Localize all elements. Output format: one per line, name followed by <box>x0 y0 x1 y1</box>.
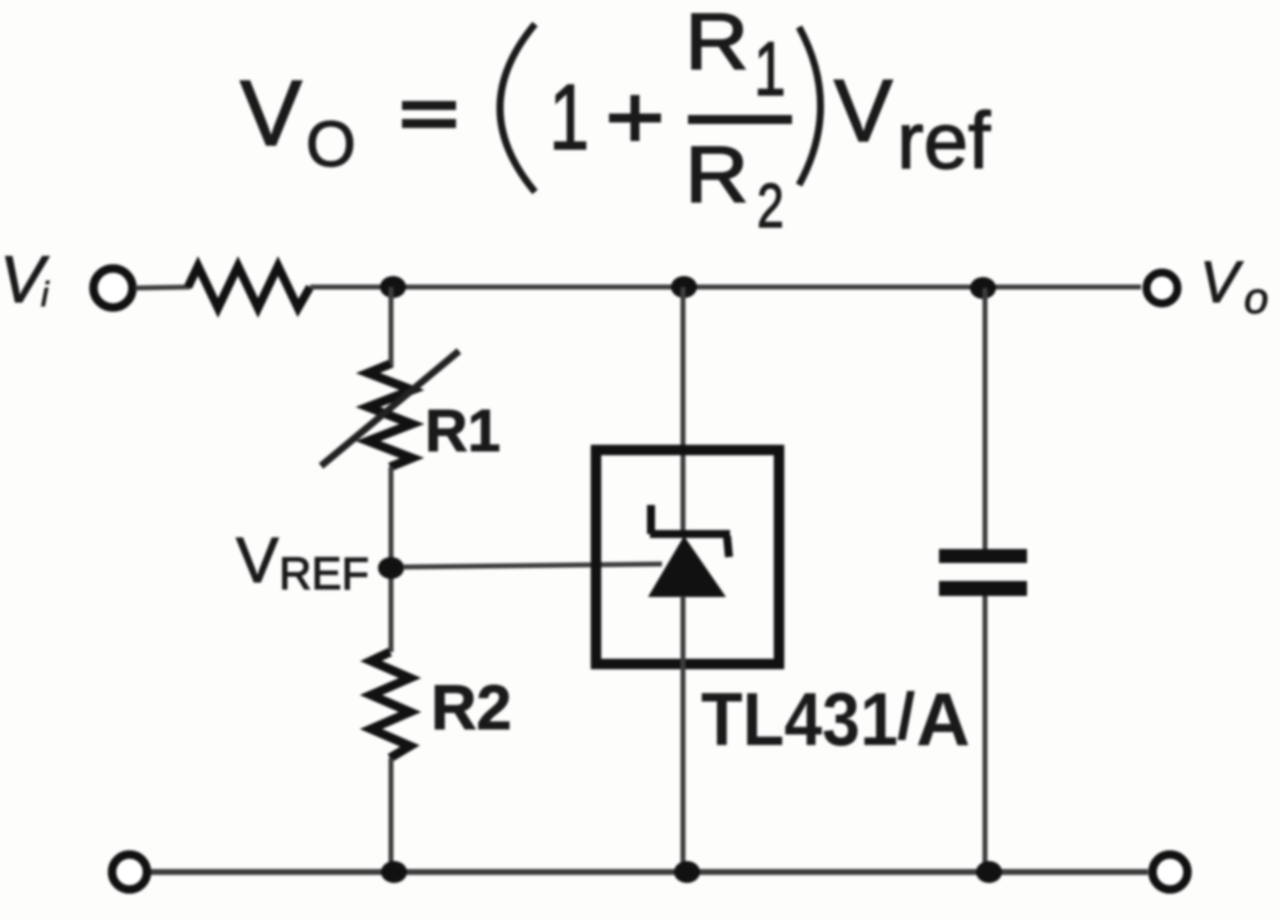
resistor R1 (variable) <box>368 364 412 467</box>
svg-text:V: V <box>240 61 302 165</box>
terminal Vi <box>94 269 133 308</box>
svg-text:2: 2 <box>757 171 784 240</box>
terminal Vo <box>1147 273 1178 304</box>
plus sign <box>609 114 661 123</box>
svg-text:R: R <box>685 0 749 86</box>
open parenthesis <box>500 24 535 192</box>
svg-text:o: o <box>1244 274 1268 323</box>
capacitor C1 top plate <box>939 549 1027 563</box>
wire R1 to Vref node <box>389 467 394 652</box>
wire bottom rail <box>151 869 1148 875</box>
svg-text:1: 1 <box>754 27 786 112</box>
svg-text:R: R <box>685 130 749 219</box>
svg-text:O: O <box>306 108 356 180</box>
terminal bottom right <box>1153 855 1188 890</box>
node F (bottom of capacitor) <box>976 861 1002 883</box>
wire Vi to resistor <box>135 287 190 288</box>
wire top rail <box>310 285 1141 290</box>
svg-text:REF: REF <box>279 548 369 599</box>
terminal bottom left <box>112 855 147 890</box>
svg-text:A: A <box>916 677 970 761</box>
resistor (input series) <box>188 266 310 308</box>
TL431 cathode right tick <box>727 536 729 557</box>
svg-text:V: V <box>834 61 893 160</box>
wire R2 to bottom rail <box>389 758 394 872</box>
node C (top of capacitor branch) <box>970 277 996 299</box>
close parenthesis <box>799 27 821 185</box>
wire capacitor to bottom rail <box>983 596 988 872</box>
svg-text:1: 1 <box>549 65 589 169</box>
TL431 cathode left tick <box>647 505 655 534</box>
equals sign <box>402 101 456 110</box>
svg-text:R2: R2 <box>431 673 512 743</box>
op-amp U1 TL431 box <box>596 450 779 664</box>
svg-text:ref: ref <box>897 96 991 185</box>
node A (top of R1 branch) <box>380 276 406 298</box>
fraction bar <box>688 115 792 124</box>
capacitor C1 bottom plate <box>939 581 1027 596</box>
TL431 anode triangle <box>648 536 726 597</box>
wire TL431 to bottom rail <box>681 596 686 872</box>
svg-text:R1: R1 <box>425 398 500 464</box>
svg-text:V: V <box>1200 250 1244 315</box>
wire R1 branch top <box>389 287 394 368</box>
resistor R2 <box>371 652 410 758</box>
svg-text:TL431: TL431 <box>701 677 898 761</box>
wire TL431 branch top <box>681 287 686 534</box>
node D (bottom of R2) <box>381 861 407 883</box>
TL431 cathode bar <box>650 530 730 538</box>
wire VREF to TL431 <box>403 564 662 567</box>
wire capacitor branch top <box>983 288 988 550</box>
node VREF <box>378 557 404 579</box>
svg-text:/: / <box>897 679 915 753</box>
node B (top of TL431 branch) <box>671 276 697 298</box>
svg-text:V: V <box>236 524 279 596</box>
svg-text:i: i <box>41 276 50 314</box>
formula Vo = (1 + R1/R2) Vref <box>240 0 991 240</box>
node E (bottom of TL431) <box>674 861 700 883</box>
arrow through R1 <box>321 351 459 466</box>
